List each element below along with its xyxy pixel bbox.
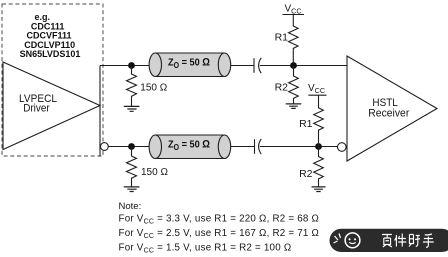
power VCC (bottom): [308, 83, 327, 95]
inversion bubble on receiver lower input: [338, 143, 347, 152]
node bottom-left junction: [128, 143, 135, 150]
watermark text 硬件助手 (drawn strokes): [382, 234, 434, 248]
ground (bottom-left): [124, 187, 140, 192]
capacitor C1 (top, AC coupling): [254, 58, 261, 73]
手: [423, 234, 434, 248]
wire top cylinder to cap: [231, 65, 254, 67]
wire cap to receiver top: [260, 65, 347, 67]
transmission line Z0=50 bottom cylinder: [149, 135, 231, 159]
resistor R1 (top): [288, 15, 298, 63]
svg-text:R1: R1: [299, 118, 313, 130]
note text: [119, 201, 320, 254]
watermark sparkle marks: [334, 234, 341, 244]
wire driver output bus: [99, 66, 101, 157]
svg-text:SN65LVDS101: SN65LVDS101: [20, 49, 81, 59]
svg-text:150 Ω: 150 Ω: [141, 167, 168, 178]
ground (top-left): [124, 106, 140, 111]
inversion bubble on driver lower output: [101, 143, 109, 151]
dashed box around driver: [2, 4, 103, 156]
wire bottom cylinder to cap: [231, 146, 255, 148]
resistor 150 ohm top: [127, 66, 137, 107]
svg-text:Driver: Driver: [23, 103, 50, 115]
wire top row left: [100, 65, 150, 67]
op-amp U1 LVPECL driver triangle: [3, 62, 100, 150]
transmission line Z0=50 top cylinder: [149, 53, 231, 77]
硬: [382, 235, 392, 248]
助: [409, 235, 420, 247]
power VCC (top): [283, 4, 305, 16]
svg-text:R1: R1: [275, 32, 289, 44]
op-amp U2 HSTL receiver triangle: [347, 56, 437, 161]
wire bottom row left: [108, 146, 150, 148]
node top-left junction: [128, 62, 135, 69]
ground (top R2): [286, 104, 302, 109]
resistor 150 ohm bottom: [127, 147, 137, 187]
wire cap to receiver bottom: [260, 146, 338, 148]
件: [395, 234, 407, 247]
resistor R2 (top): [289, 66, 299, 104]
svg-text:Note:: Note:: [119, 201, 142, 212]
svg-text:R2: R2: [275, 82, 289, 94]
resistor R1 (bottom): [314, 95, 324, 146]
svg-text:R2: R2: [299, 168, 313, 180]
node top termination junction: [290, 62, 297, 69]
capacitor C2 (bottom, AC coupling): [255, 139, 262, 154]
watermark band: [330, 229, 448, 252]
watermark logo circle: [345, 233, 360, 248]
resistor R2 (bottom): [314, 147, 324, 187]
svg-text:150 Ω: 150 Ω: [140, 83, 167, 94]
part list labels e.g. CDC111 CDCVF111 CDCLVP110 SN65LVDS101: [20, 12, 81, 59]
node bottom termination junction: [315, 143, 322, 150]
ground (bottom R2): [312, 187, 326, 192]
svg-text:Receiver: Receiver: [368, 107, 409, 119]
